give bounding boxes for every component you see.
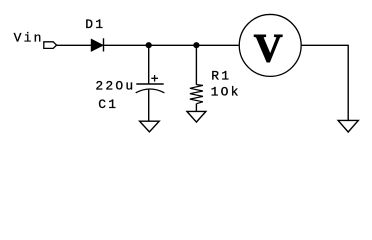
capacitor C1 top plate	[136, 83, 163, 85]
wire resistor to ground	[195, 104, 197, 112]
capacitor C1 plus sign	[151, 75, 158, 82]
wire voltmeter to corner and down	[301, 45, 348, 120]
svg-text:D1: D1	[85, 17, 105, 32]
resistor R1 zigzag	[190, 85, 203, 104]
wire diode to voltmeter	[104, 44, 239, 46]
wire node to capacitor	[148, 45, 150, 84]
capacitor C1 bottom plate arc	[136, 89, 165, 93]
svg-text:22Ou: 22Ou	[95, 79, 135, 94]
ground below capacitor	[140, 121, 160, 132]
ground at right	[338, 120, 358, 132]
input port symbol Vin	[44, 42, 57, 49]
svg-text:V: V	[254, 25, 283, 70]
diode D1	[91, 38, 103, 51]
wire capacitor to ground	[148, 89, 150, 121]
svg-text:C1: C1	[98, 97, 118, 112]
wire node to resistor	[195, 45, 197, 85]
junction node at capacitor	[146, 42, 152, 48]
svg-text:R1: R1	[211, 69, 231, 84]
svg-text:Vin: Vin	[14, 31, 44, 46]
junction node at resistor	[193, 42, 199, 48]
wire port to diode	[57, 44, 92, 46]
ground below resistor	[187, 111, 206, 122]
svg-text:1Ok: 1Ok	[211, 85, 241, 100]
voltmeter V1 circle	[239, 14, 301, 76]
